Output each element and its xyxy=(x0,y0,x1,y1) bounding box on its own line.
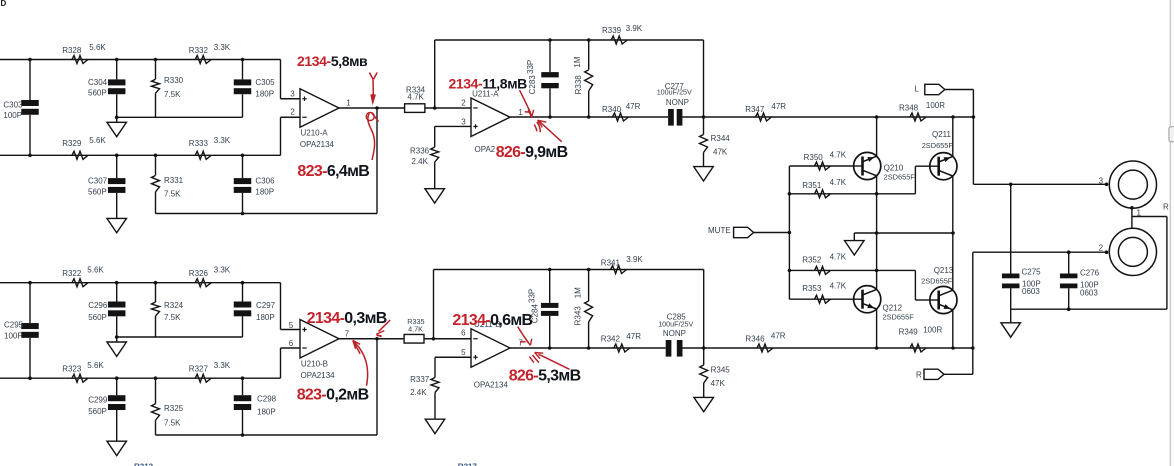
svg-text:C283: C283 xyxy=(528,75,537,95)
svg-text:823-0,2мВ: 823-0,2мВ xyxy=(297,387,369,404)
svg-text:2134-0,6мВ: 2134-0,6мВ xyxy=(452,312,532,329)
svg-text:R322: R322 xyxy=(62,269,82,278)
svg-text:1M: 1M xyxy=(573,56,582,67)
svg-text:C275: C275 xyxy=(1022,267,1042,276)
svg-text:C305: C305 xyxy=(255,78,275,87)
svg-text:826-9,9мВ: 826-9,9мВ xyxy=(496,144,568,161)
svg-text:R338: R338 xyxy=(574,75,583,95)
svg-text:Q211: Q211 xyxy=(932,130,952,139)
svg-text:3.3K: 3.3K xyxy=(214,361,231,370)
svg-text:C295: C295 xyxy=(4,320,24,329)
svg-text:7.5K: 7.5K xyxy=(164,190,181,199)
svg-text:2: 2 xyxy=(1099,244,1104,253)
svg-text:47K: 47K xyxy=(713,147,728,156)
svg-text:OPA2134: OPA2134 xyxy=(300,140,335,149)
svg-text:560P: 560P xyxy=(88,89,107,98)
svg-text:R313: R313 xyxy=(134,462,154,466)
svg-text:1: 1 xyxy=(1137,209,1142,218)
svg-text:MUTE: MUTE xyxy=(708,226,731,235)
svg-text:4.7K: 4.7K xyxy=(407,92,424,101)
svg-text:2: 2 xyxy=(290,108,295,117)
svg-text:1: 1 xyxy=(518,108,523,117)
svg-text:R326: R326 xyxy=(189,269,209,278)
svg-text:1M: 1M xyxy=(574,287,583,298)
svg-text:R323: R323 xyxy=(62,364,82,373)
svg-text:47R: 47R xyxy=(626,102,641,111)
svg-text:4.7K: 4.7K xyxy=(408,325,423,334)
svg-text:100uF/25V: 100uF/25V xyxy=(658,320,693,329)
svg-text:560P: 560P xyxy=(88,407,107,416)
svg-text:R336: R336 xyxy=(410,147,430,156)
svg-text:R344: R344 xyxy=(711,134,731,143)
svg-text:R346: R346 xyxy=(745,334,765,343)
svg-text:2134-5,8мв: 2134-5,8мв xyxy=(297,53,368,69)
svg-text:C303: C303 xyxy=(3,100,23,109)
svg-text:2134-11,8мВ: 2134-11,8мВ xyxy=(449,76,528,92)
svg-text:R333: R333 xyxy=(189,139,209,148)
svg-text:100uF/25V: 100uF/25V xyxy=(657,88,692,97)
svg-text:R348: R348 xyxy=(899,104,919,113)
svg-text:R342: R342 xyxy=(601,334,621,343)
svg-text:180P: 180P xyxy=(256,313,275,322)
svg-text:180P: 180P xyxy=(255,90,274,99)
svg-text:7.5K: 7.5K xyxy=(164,313,181,322)
svg-text:C304: C304 xyxy=(88,78,108,87)
svg-text:3: 3 xyxy=(290,90,295,99)
svg-text:NONP: NONP xyxy=(666,98,689,107)
svg-text:R350: R350 xyxy=(804,153,824,162)
svg-text:C299: C299 xyxy=(88,395,108,404)
svg-text:5.6K: 5.6K xyxy=(87,266,104,275)
svg-text:OPA2134: OPA2134 xyxy=(301,371,336,380)
svg-text:5.6K: 5.6K xyxy=(89,43,106,52)
svg-text:R349: R349 xyxy=(899,328,919,337)
svg-text:6: 6 xyxy=(289,339,294,348)
svg-text:Q213: Q213 xyxy=(934,266,954,275)
svg-text:7: 7 xyxy=(518,339,523,348)
svg-text:7.5K: 7.5K xyxy=(164,90,181,99)
svg-text:R332: R332 xyxy=(189,46,209,55)
svg-text:R352: R352 xyxy=(802,255,822,264)
svg-text:4.7K: 4.7K xyxy=(830,178,847,187)
svg-text:R351: R351 xyxy=(802,181,822,190)
svg-text:R329: R329 xyxy=(62,139,82,148)
svg-text:C296: C296 xyxy=(88,301,108,310)
svg-text:R: R xyxy=(916,371,922,380)
svg-text:3.3K: 3.3K xyxy=(214,43,231,52)
svg-text:3: 3 xyxy=(1099,177,1104,186)
svg-text:R347: R347 xyxy=(745,105,765,114)
svg-text:5.6K: 5.6K xyxy=(89,136,106,145)
svg-text:R328: R328 xyxy=(62,46,82,55)
svg-text:6: 6 xyxy=(461,329,466,338)
svg-text:R325: R325 xyxy=(164,404,184,413)
svg-text:33P: 33P xyxy=(526,60,535,74)
svg-text:2: 2 xyxy=(461,99,466,108)
svg-text:47K: 47K xyxy=(711,379,726,388)
svg-text:2.4K: 2.4K xyxy=(412,157,429,166)
svg-text:3.9K: 3.9K xyxy=(626,24,643,33)
svg-text:47R: 47R xyxy=(771,102,786,111)
svg-text:47R: 47R xyxy=(771,332,786,341)
svg-text:100P: 100P xyxy=(3,111,22,120)
svg-text:R345: R345 xyxy=(711,365,731,374)
svg-text:OPA2134: OPA2134 xyxy=(474,380,509,389)
svg-text:C306: C306 xyxy=(255,177,275,186)
svg-text:R327: R327 xyxy=(189,364,209,373)
svg-text:560P: 560P xyxy=(88,187,107,196)
svg-text:R341: R341 xyxy=(601,258,621,267)
svg-text:R: R xyxy=(1163,202,1169,211)
svg-text:NONP: NONP xyxy=(663,329,686,338)
svg-text:2SD655F: 2SD655F xyxy=(884,172,916,181)
svg-text:7: 7 xyxy=(345,330,350,339)
svg-text:100P: 100P xyxy=(4,332,23,341)
svg-text:33P: 33P xyxy=(528,289,537,303)
svg-text:L: L xyxy=(915,84,920,93)
svg-text:R353: R353 xyxy=(802,284,822,293)
svg-text:180P: 180P xyxy=(255,187,274,196)
svg-text:R343: R343 xyxy=(574,306,583,326)
svg-text:C298: C298 xyxy=(257,395,277,404)
svg-text:R339: R339 xyxy=(602,26,622,35)
svg-text:R331: R331 xyxy=(164,176,184,185)
svg-text:R340: R340 xyxy=(602,105,622,114)
svg-text:180P: 180P xyxy=(257,408,276,417)
svg-text:560P: 560P xyxy=(88,313,107,322)
svg-text:C276: C276 xyxy=(1080,269,1100,278)
svg-text:3.9K: 3.9K xyxy=(626,255,643,264)
svg-text:0603: 0603 xyxy=(1022,287,1040,296)
svg-text:3.3K: 3.3K xyxy=(214,266,231,275)
svg-text:3: 3 xyxy=(461,117,466,126)
svg-text:R337: R337 xyxy=(410,375,430,384)
svg-text:R324: R324 xyxy=(164,301,184,310)
svg-text:R330: R330 xyxy=(164,76,184,85)
svg-text:2SD655F: 2SD655F xyxy=(921,277,953,286)
svg-text:5: 5 xyxy=(461,348,466,357)
svg-text:0603: 0603 xyxy=(1080,288,1098,297)
svg-text:4.7K: 4.7K xyxy=(830,150,847,159)
svg-text:826-5,3мВ: 826-5,3мВ xyxy=(509,368,581,385)
svg-text:7.5K: 7.5K xyxy=(164,419,181,428)
svg-text:2SD655F: 2SD655F xyxy=(883,313,915,322)
svg-text:2SD655F: 2SD655F xyxy=(922,141,954,150)
svg-text:47R: 47R xyxy=(626,332,641,341)
svg-text:U210-A: U210-A xyxy=(301,129,329,138)
svg-text:4.7K: 4.7K xyxy=(830,253,847,262)
svg-text:Q212: Q212 xyxy=(883,304,903,313)
svg-text:2.4K: 2.4K xyxy=(410,388,427,397)
svg-text:U210-B: U210-B xyxy=(301,359,328,368)
svg-text:100R: 100R xyxy=(926,101,945,110)
svg-text:100R: 100R xyxy=(923,326,942,335)
svg-text:C307: C307 xyxy=(88,177,108,186)
svg-text:5: 5 xyxy=(289,321,294,330)
svg-text:5.6K: 5.6K xyxy=(87,361,104,370)
svg-text:1: 1 xyxy=(346,99,351,108)
svg-text:2134-0,3мВ: 2134-0,3мВ xyxy=(307,310,387,327)
svg-text:C297: C297 xyxy=(256,301,276,310)
svg-text:3.3K: 3.3K xyxy=(214,136,231,145)
svg-text:D: D xyxy=(1,0,7,8)
svg-text:823-6,4мВ: 823-6,4мВ xyxy=(297,163,369,180)
svg-text:R317: R317 xyxy=(458,462,478,466)
svg-text:4.7K: 4.7K xyxy=(830,281,847,290)
